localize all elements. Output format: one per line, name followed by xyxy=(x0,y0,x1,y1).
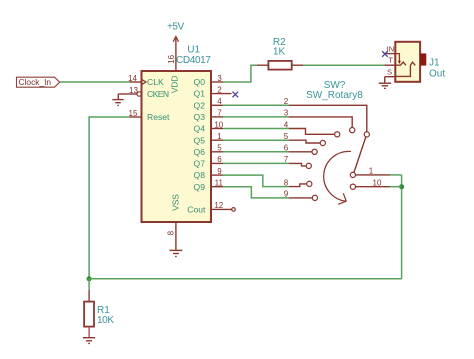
svg-text:12: 12 xyxy=(214,201,223,210)
wire Q0 to R2 xyxy=(223,65,257,82)
wire Q5 to SW pin5 xyxy=(223,139,289,141)
svg-text:Q9: Q9 xyxy=(194,182,206,192)
IC U1 CD4017 decade counter body xyxy=(142,71,212,222)
SW pin 7 xyxy=(284,155,312,168)
internal switch contact and sleeve xyxy=(395,62,415,76)
svg-text:6: 6 xyxy=(217,155,222,164)
svg-text:Q7: Q7 xyxy=(194,159,206,169)
svg-text:Clock_In: Clock_In xyxy=(19,77,52,87)
pin 14 CLK of U1 xyxy=(128,74,164,87)
svg-text:10: 10 xyxy=(373,179,382,188)
pin 1 Q5 of U1 xyxy=(194,132,223,145)
svg-text:8: 8 xyxy=(284,178,289,187)
pin 2 Q1 of U1 xyxy=(194,85,232,98)
node junction at R1 top xyxy=(87,276,92,281)
power +5V xyxy=(167,22,185,60)
pin 5 Q6 of U1 xyxy=(194,144,223,157)
svg-text:10K: 10K xyxy=(97,315,114,326)
pin 15 Reset of U1 xyxy=(129,109,171,122)
svg-text:CKEN: CKEN xyxy=(147,89,169,99)
resistor R2 xyxy=(257,37,303,69)
svg-text:3: 3 xyxy=(284,109,289,118)
ground (VSS) xyxy=(170,234,183,257)
connector J1 (audio jack) xyxy=(395,42,426,82)
svg-text:4: 4 xyxy=(217,97,222,106)
node junction at switch common xyxy=(399,184,404,189)
svg-text:11: 11 xyxy=(215,179,224,188)
SW pin 3 xyxy=(284,109,355,133)
svg-text:U1: U1 xyxy=(187,44,200,55)
svg-text:1: 1 xyxy=(369,167,374,176)
svg-text:5: 5 xyxy=(217,144,222,153)
pin 10 Q4 of U1 xyxy=(194,120,224,133)
wire Q6 to SW pin6 xyxy=(223,151,289,153)
internal tip contact xyxy=(395,62,406,65)
internal IN arrow xyxy=(395,54,399,62)
svg-text:1: 1 xyxy=(217,132,222,141)
pin 9 Q8 of U1 xyxy=(194,167,223,180)
SW pin 4 xyxy=(284,120,340,137)
wire Q8 to SW pin8 (jog down) xyxy=(223,175,289,187)
pin 12 Cout of U1 (unconnected, open circle) xyxy=(187,201,235,214)
SW pin 8 xyxy=(284,178,312,187)
SW rotation arc arrow xyxy=(324,151,351,204)
svg-text:7: 7 xyxy=(217,109,222,118)
svg-text:15: 15 xyxy=(129,109,138,118)
wire Q3 to SW pin3 xyxy=(223,116,289,118)
svg-text:7: 7 xyxy=(284,155,289,164)
ground (J1 sleeve) xyxy=(379,77,392,89)
svg-text:+5V: +5V xyxy=(167,22,185,33)
wire right vertical up to switch commons xyxy=(401,175,403,279)
resistor R1 xyxy=(84,279,114,338)
svg-text:16: 16 xyxy=(167,54,176,63)
svg-text:T: T xyxy=(388,56,393,65)
pin IN of J1 xyxy=(384,44,395,53)
wire SW pin1 to right vertical xyxy=(390,174,402,176)
pin 11 Q9 of U1 xyxy=(194,179,224,192)
svg-text:Cout: Cout xyxy=(187,204,206,214)
pin S of J1 xyxy=(385,67,396,76)
svg-text:9: 9 xyxy=(284,190,289,199)
wire Q2 to SW pin2 xyxy=(223,104,289,106)
svg-text:3: 3 xyxy=(217,74,222,83)
ground (CKEN) xyxy=(112,94,129,105)
wire Q9 to SW pin9 (jog down) xyxy=(223,187,289,198)
svg-text:10: 10 xyxy=(214,120,223,129)
SW common pin 10 xyxy=(350,179,390,190)
svg-text:VDD: VDD xyxy=(170,76,180,94)
svg-text:8: 8 xyxy=(167,230,176,235)
SW pin 9 xyxy=(284,190,318,201)
svg-text:J1: J1 xyxy=(429,58,440,69)
SW pin 2 xyxy=(284,97,370,137)
no-connect X on Q1 xyxy=(233,92,239,98)
pin 3 Q0 of U1 xyxy=(194,74,223,87)
svg-text:Q8: Q8 xyxy=(194,170,206,180)
SW pin 6 xyxy=(284,144,317,155)
pin 7 Q3 of U1 xyxy=(194,109,223,122)
svg-text:6: 6 xyxy=(284,144,289,153)
global label Clock_In xyxy=(17,77,60,87)
SW common pin 1 xyxy=(350,167,390,178)
SW pin 5 xyxy=(284,132,326,146)
pin 6 Q7 of U1 xyxy=(194,155,223,168)
svg-text:CLK: CLK xyxy=(147,77,164,87)
svg-text:Q0: Q0 xyxy=(194,77,206,87)
svg-text:1K: 1K xyxy=(273,47,286,58)
pin 13 CKEN of U1 (inverted, bubble) xyxy=(129,86,169,99)
pin T of J1 xyxy=(384,56,395,65)
svg-text:Reset: Reset xyxy=(147,112,170,122)
svg-text:Q2: Q2 xyxy=(194,100,206,110)
svg-text:VSS: VSS xyxy=(171,194,181,211)
svg-text:Out: Out xyxy=(429,69,445,80)
svg-text:5: 5 xyxy=(284,132,289,141)
svg-text:SW_Rotary8: SW_Rotary8 xyxy=(306,90,363,101)
ground (R1) xyxy=(83,338,95,344)
svg-text:S: S xyxy=(387,67,392,76)
wire Clock_In to CLK xyxy=(60,81,130,83)
wire bottom horizontal xyxy=(89,278,402,280)
wire SW pin10 to junction xyxy=(390,186,402,188)
svg-text:Q3: Q3 xyxy=(194,112,206,122)
pin 8 VSS of U1 xyxy=(167,194,181,236)
svg-text:Q4: Q4 xyxy=(194,124,206,134)
pin 16 VDD of U1 xyxy=(167,54,180,93)
svg-text:Q6: Q6 xyxy=(194,147,206,157)
svg-text:CD4017: CD4017 xyxy=(176,55,211,66)
svg-text:13: 13 xyxy=(129,86,138,95)
svg-text:9: 9 xyxy=(217,167,222,176)
svg-text:Q1: Q1 xyxy=(194,89,206,99)
svg-text:Q5: Q5 xyxy=(194,135,206,145)
wire Q7 to SW pin7 xyxy=(223,162,289,164)
wire R2 to J1 tip xyxy=(303,64,384,66)
svg-text:4: 4 xyxy=(284,120,289,129)
SW selector lever xyxy=(354,137,366,172)
wire Reset net (down the left) xyxy=(89,117,129,279)
svg-text:2: 2 xyxy=(217,85,222,94)
svg-text:2: 2 xyxy=(284,97,289,106)
no-connect X on J1 IN xyxy=(382,51,388,57)
wire Q4 to SW pin4 xyxy=(223,128,289,130)
pin 4 Q2 of U1 xyxy=(194,97,223,110)
